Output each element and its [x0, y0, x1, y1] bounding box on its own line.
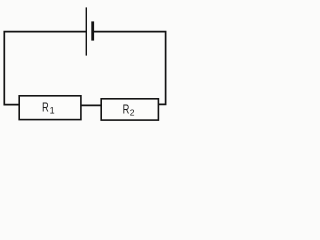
resistor R2 label	[123, 103, 135, 117]
svg-text:1: 1	[50, 106, 55, 116]
resistor R1 box	[19, 96, 81, 120]
battery B1 short thick negative plate	[91, 21, 94, 40]
wire: top-right wire, right wire, bottom-right wire to R2	[93, 32, 166, 105]
svg-text:R: R	[123, 103, 130, 117]
resistor R2 box	[101, 99, 158, 120]
wire: top-left wire, left wire, bottom-left wire to R1	[4, 32, 86, 105]
resistor R1 label	[42, 101, 55, 115]
wire: R1 to R2	[81, 104, 101, 106]
svg-text:R: R	[42, 101, 49, 115]
battery B1 long positive plate	[85, 7, 87, 55]
svg-text:2: 2	[130, 108, 135, 118]
